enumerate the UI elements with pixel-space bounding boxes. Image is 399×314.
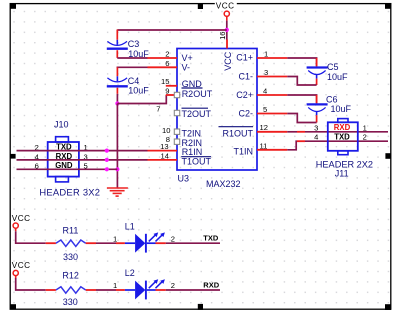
svg-text:MAX232: MAX232	[206, 179, 241, 189]
svg-text:2: 2	[171, 281, 175, 290]
wire L2 to RXD	[166, 289, 220, 291]
frame mark bottom-right	[385, 304, 391, 310]
U3 pin decoration squares	[174, 92, 179, 144]
connector J11	[328, 119, 358, 155]
frame mark bottom-middle	[198, 304, 203, 310]
pin 2 stub	[148, 57, 178, 59]
svg-text:HEADER 3X2: HEADER 3X2	[39, 186, 100, 197]
svg-text:C2+: C2+	[236, 90, 253, 100]
svg-text:VCC: VCC	[216, 2, 235, 11]
svg-text:T1OUT: T1OUT	[182, 156, 212, 166]
svg-text:RXD: RXD	[334, 123, 351, 132]
U3 left pin stubs	[148, 40, 288, 160]
svg-text:V-: V-	[182, 63, 191, 73]
svg-text:13: 13	[160, 142, 168, 151]
wire C3 to U3 pin 2	[117, 57, 147, 59]
frame mark top-middle	[198, 3, 203, 9]
svg-text:C1-: C1-	[238, 72, 253, 82]
frame mark left-middle	[10, 154, 15, 159]
wire U3 pin 6 to C4	[117, 66, 147, 69]
svg-text:10uF: 10uF	[327, 72, 348, 82]
svg-text:VCC: VCC	[223, 51, 233, 71]
junction C4/GND node	[115, 101, 119, 105]
wire U3 pin4 to C6	[287, 95, 316, 103]
U3 pin names	[182, 51, 254, 166]
junction row1	[105, 149, 109, 153]
pin 15 stub	[166, 85, 177, 87]
svg-text:1: 1	[363, 123, 367, 132]
svg-text:VCC: VCC	[12, 214, 31, 223]
svg-text:10uF: 10uF	[331, 104, 352, 114]
pin 14 stub	[148, 159, 178, 161]
svg-text:14: 14	[161, 152, 169, 161]
pin 12 stub	[257, 131, 287, 133]
svg-text:16: 16	[218, 31, 227, 39]
frame mark bottom-left	[10, 304, 16, 309]
wire J11 row1 inside and right to frame	[328, 131, 358, 133]
pin 3 stub	[257, 76, 287, 78]
svg-text:11: 11	[260, 141, 268, 150]
connector J10	[48, 137, 79, 182]
J11 pin numbers	[314, 123, 367, 141]
R1OUT overline	[219, 126, 254, 128]
wire VCC to R11	[16, 231, 46, 243]
frame mark top-left	[10, 3, 16, 8]
junction row3	[105, 167, 109, 171]
svg-text:10: 10	[162, 126, 170, 135]
capacitor C6	[307, 94, 352, 122]
wire U3 pin1 to C5	[287, 58, 316, 66]
wire J10 row3 GND	[17, 168, 118, 170]
wire L1 to TXD	[166, 242, 220, 244]
svg-text:J10: J10	[54, 120, 69, 130]
op-amp U3 box	[177, 49, 257, 171]
pin 5 stub	[257, 113, 287, 115]
svg-text:R2OUT: R2OUT	[182, 89, 213, 99]
svg-text:VCC: VCC	[12, 261, 31, 270]
svg-text:C6: C6	[326, 94, 338, 104]
junction GND row	[115, 167, 119, 171]
svg-text:9: 9	[165, 87, 169, 96]
svg-text:R11: R11	[63, 226, 79, 236]
T2OUT overline	[182, 107, 209, 109]
wire R11 to L1	[96, 242, 116, 244]
pin 1 stub	[257, 57, 287, 59]
pin 13 stub	[148, 150, 178, 152]
svg-text:TXD: TXD	[334, 132, 350, 141]
svg-text:C1+: C1+	[236, 52, 253, 62]
wire junction to U3 pin 9	[117, 95, 166, 104]
pin 11 stub	[257, 149, 287, 151]
wire GND vertical	[116, 104, 118, 188]
wire U3 pin3 to C5 bottom	[287, 77, 316, 86]
wire U3 pin5 to C6 bottom	[287, 114, 316, 123]
svg-text:TXD: TXD	[203, 234, 219, 243]
U3 pin numbers	[156, 31, 268, 160]
capacitor C4	[107, 67, 149, 95]
svg-text:4: 4	[263, 87, 267, 96]
svg-text:L1: L1	[125, 222, 135, 232]
wire VCC to R12	[16, 278, 46, 290]
svg-text:2: 2	[171, 234, 175, 243]
wire J10 row2	[17, 159, 148, 161]
power port VCC (row2)	[12, 261, 31, 279]
svg-text:J11: J11	[335, 168, 349, 178]
svg-text:C5: C5	[327, 62, 339, 72]
svg-text:1: 1	[264, 50, 268, 59]
J10 pin numbers	[35, 143, 88, 171]
svg-text:4: 4	[314, 133, 318, 142]
svg-text:R12: R12	[62, 271, 79, 281]
pin 6 stub	[148, 66, 178, 68]
capacitor C3	[107, 30, 149, 59]
svg-text:T1IN: T1IN	[233, 147, 253, 157]
frame mark right-middle	[385, 153, 391, 159]
power port VCC (row1)	[12, 214, 31, 231]
svg-text:C4: C4	[128, 76, 140, 86]
U3 pin name bars	[181, 88, 253, 157]
svg-text:5: 5	[263, 105, 267, 114]
wire J10 row1	[17, 150, 148, 152]
pin 9 stub	[166, 94, 177, 96]
GND underline	[182, 87, 203, 89]
frame mark top-right	[385, 3, 391, 9]
svg-text:R1OUT: R1OUT	[222, 129, 253, 139]
wire R12 to L2	[96, 289, 116, 291]
svg-text:15: 15	[161, 77, 169, 86]
resistor R11	[46, 226, 96, 262]
svg-text:1: 1	[113, 234, 117, 243]
svg-text:10uF: 10uF	[128, 86, 149, 96]
resistor R12	[46, 271, 96, 307]
svg-text:6: 6	[165, 59, 169, 68]
svg-text:3: 3	[264, 68, 268, 77]
LED L2	[116, 268, 166, 300]
svg-text:330: 330	[63, 252, 78, 262]
svg-text:2: 2	[165, 50, 169, 59]
svg-text:3: 3	[314, 123, 318, 132]
svg-text:C3: C3	[128, 39, 140, 49]
power port VCC (top)	[215, 2, 237, 21]
svg-text:L2: L2	[125, 268, 135, 278]
R1IN underline	[181, 156, 211, 158]
svg-text:7: 7	[156, 105, 160, 114]
svg-text:RXD: RXD	[203, 280, 219, 289]
ground	[107, 188, 128, 196]
LED L1	[116, 222, 166, 253]
wire U3 pin11 to J11 pin4	[287, 141, 297, 150]
svg-text:GND: GND	[182, 79, 203, 89]
svg-text:330: 330	[63, 297, 78, 307]
wire U3 pin12 to J11 pin3	[287, 131, 297, 133]
capacitor C5	[307, 58, 348, 85]
wire VCC rail to C3	[117, 29, 227, 31]
wire VCC vertical to U3 pin 16	[226, 21, 228, 40]
svg-text:U3: U3	[178, 173, 190, 183]
svg-text:12: 12	[260, 123, 268, 132]
svg-text:2: 2	[363, 133, 367, 142]
wire C4 to junction	[116, 94, 118, 104]
svg-text:T2OUT: T2OUT	[182, 109, 212, 119]
wire J11 row2 inside and right to frame	[328, 140, 358, 142]
svg-text:C2-: C2-	[238, 109, 253, 119]
svg-text:1: 1	[113, 281, 117, 290]
pin 16 stub	[226, 40, 228, 49]
junction row2	[105, 158, 109, 162]
junction VCC rail	[225, 28, 229, 32]
pin 4 stub	[257, 94, 287, 96]
